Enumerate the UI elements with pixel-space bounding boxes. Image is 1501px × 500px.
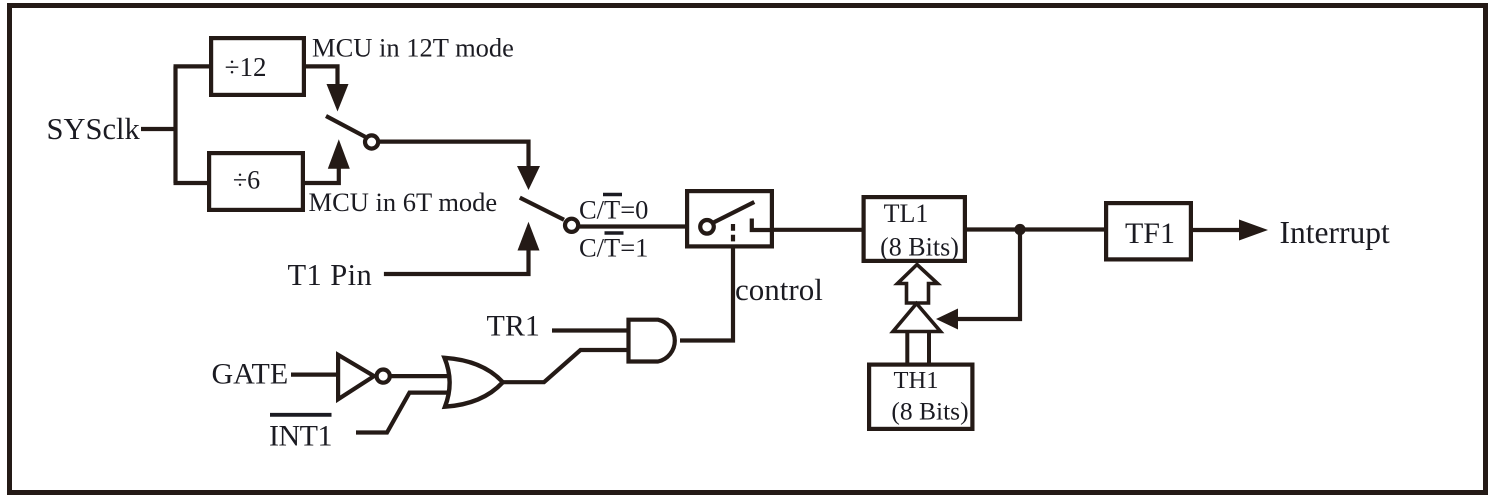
svg-text:T1 Pin: T1 Pin: [288, 258, 373, 292]
svg-text:TH1: TH1: [894, 367, 939, 394]
and-gate: [629, 320, 675, 362]
wire inverter to OR gate: [390, 374, 450, 378]
svg-text:(8 Bits): (8 Bits): [880, 233, 959, 262]
wire TL1 to TF1: [965, 227, 1106, 231]
node GATE: [212, 358, 289, 391]
svg-text:C/T=0: C/T=0: [579, 195, 648, 225]
junction node at TL1 output: [1014, 224, 1025, 235]
wire TF1 to Interrupt (arrow): [1191, 220, 1268, 241]
svg-text:(8 Bits): (8 Bits): [891, 397, 968, 426]
svg-text:GATE: GATE: [212, 358, 289, 391]
switch S2 lever and contact: [520, 198, 578, 232]
svg-text:INT1: INT1: [269, 420, 332, 453]
svg-text:÷6: ÷6: [233, 166, 260, 195]
wire GATE to inverter: [291, 373, 338, 377]
wire TR1 to AND gate: [552, 328, 628, 332]
svg-text:TL1: TL1: [884, 199, 929, 228]
svg-text:TF1: TF1: [1125, 217, 1175, 250]
svg-text:TR1: TR1: [487, 310, 540, 343]
wire junction to reload arrowhead: [936, 230, 1020, 330]
wire OR gate to AND gate: [503, 350, 629, 382]
wire SYSclk to divider branch: [141, 66, 211, 183]
node INT1 (active low): [269, 415, 332, 453]
wire AND gate to control switch: [680, 246, 733, 341]
wire T1 Pin to switch S2 (up arrow): [384, 222, 540, 274]
label Interrupt: [1280, 215, 1390, 250]
control switch box: [687, 191, 772, 246]
register TL1: [864, 197, 965, 261]
node SYSclk: [47, 112, 141, 146]
svg-text:MCU in 6T mode: MCU in 6T mode: [309, 187, 498, 217]
register TH1: [869, 365, 972, 429]
wire ÷12 output to switch S1 (down arrow): [303, 66, 349, 111]
svg-text:MCU in 12T mode: MCU in 12T mode: [312, 33, 514, 63]
label C/T=1: [579, 233, 648, 263]
hollow reload arrow lower shaft: [907, 332, 929, 365]
label MCU in 12T mode: [312, 33, 514, 63]
wire S1 to switch S2 (down arrow): [379, 142, 541, 190]
node TR1: [487, 310, 540, 343]
node T1 Pin: [288, 258, 373, 292]
divider box ÷6: [209, 153, 303, 210]
switch S1 lever and contact: [326, 116, 378, 149]
hollow reload arrow upper (into TL1): [898, 265, 938, 304]
wire control switch to TL1: [772, 228, 864, 232]
wire INT1 to OR gate: [356, 393, 450, 433]
wire S2 to control switch: [578, 224, 687, 228]
label MCU in 6T mode: [309, 187, 498, 217]
inverter (NOT gate): [338, 355, 390, 400]
svg-text:Interrupt: Interrupt: [1280, 215, 1390, 250]
label control: [735, 272, 823, 307]
svg-text:÷12: ÷12: [225, 52, 267, 82]
label C/T=0: [579, 195, 648, 225]
wire ÷6 output to switch S1 (up arrow): [302, 139, 350, 183]
divider box ÷12: [211, 38, 304, 95]
svg-text:control: control: [735, 272, 823, 307]
svg-text:SYSclk: SYSclk: [47, 112, 141, 146]
register TF1: [1106, 203, 1191, 259]
or-gate: [445, 358, 503, 407]
hollow reload arrow lower triangle: [893, 304, 941, 332]
svg-text:C/T=1: C/T=1: [579, 233, 648, 263]
